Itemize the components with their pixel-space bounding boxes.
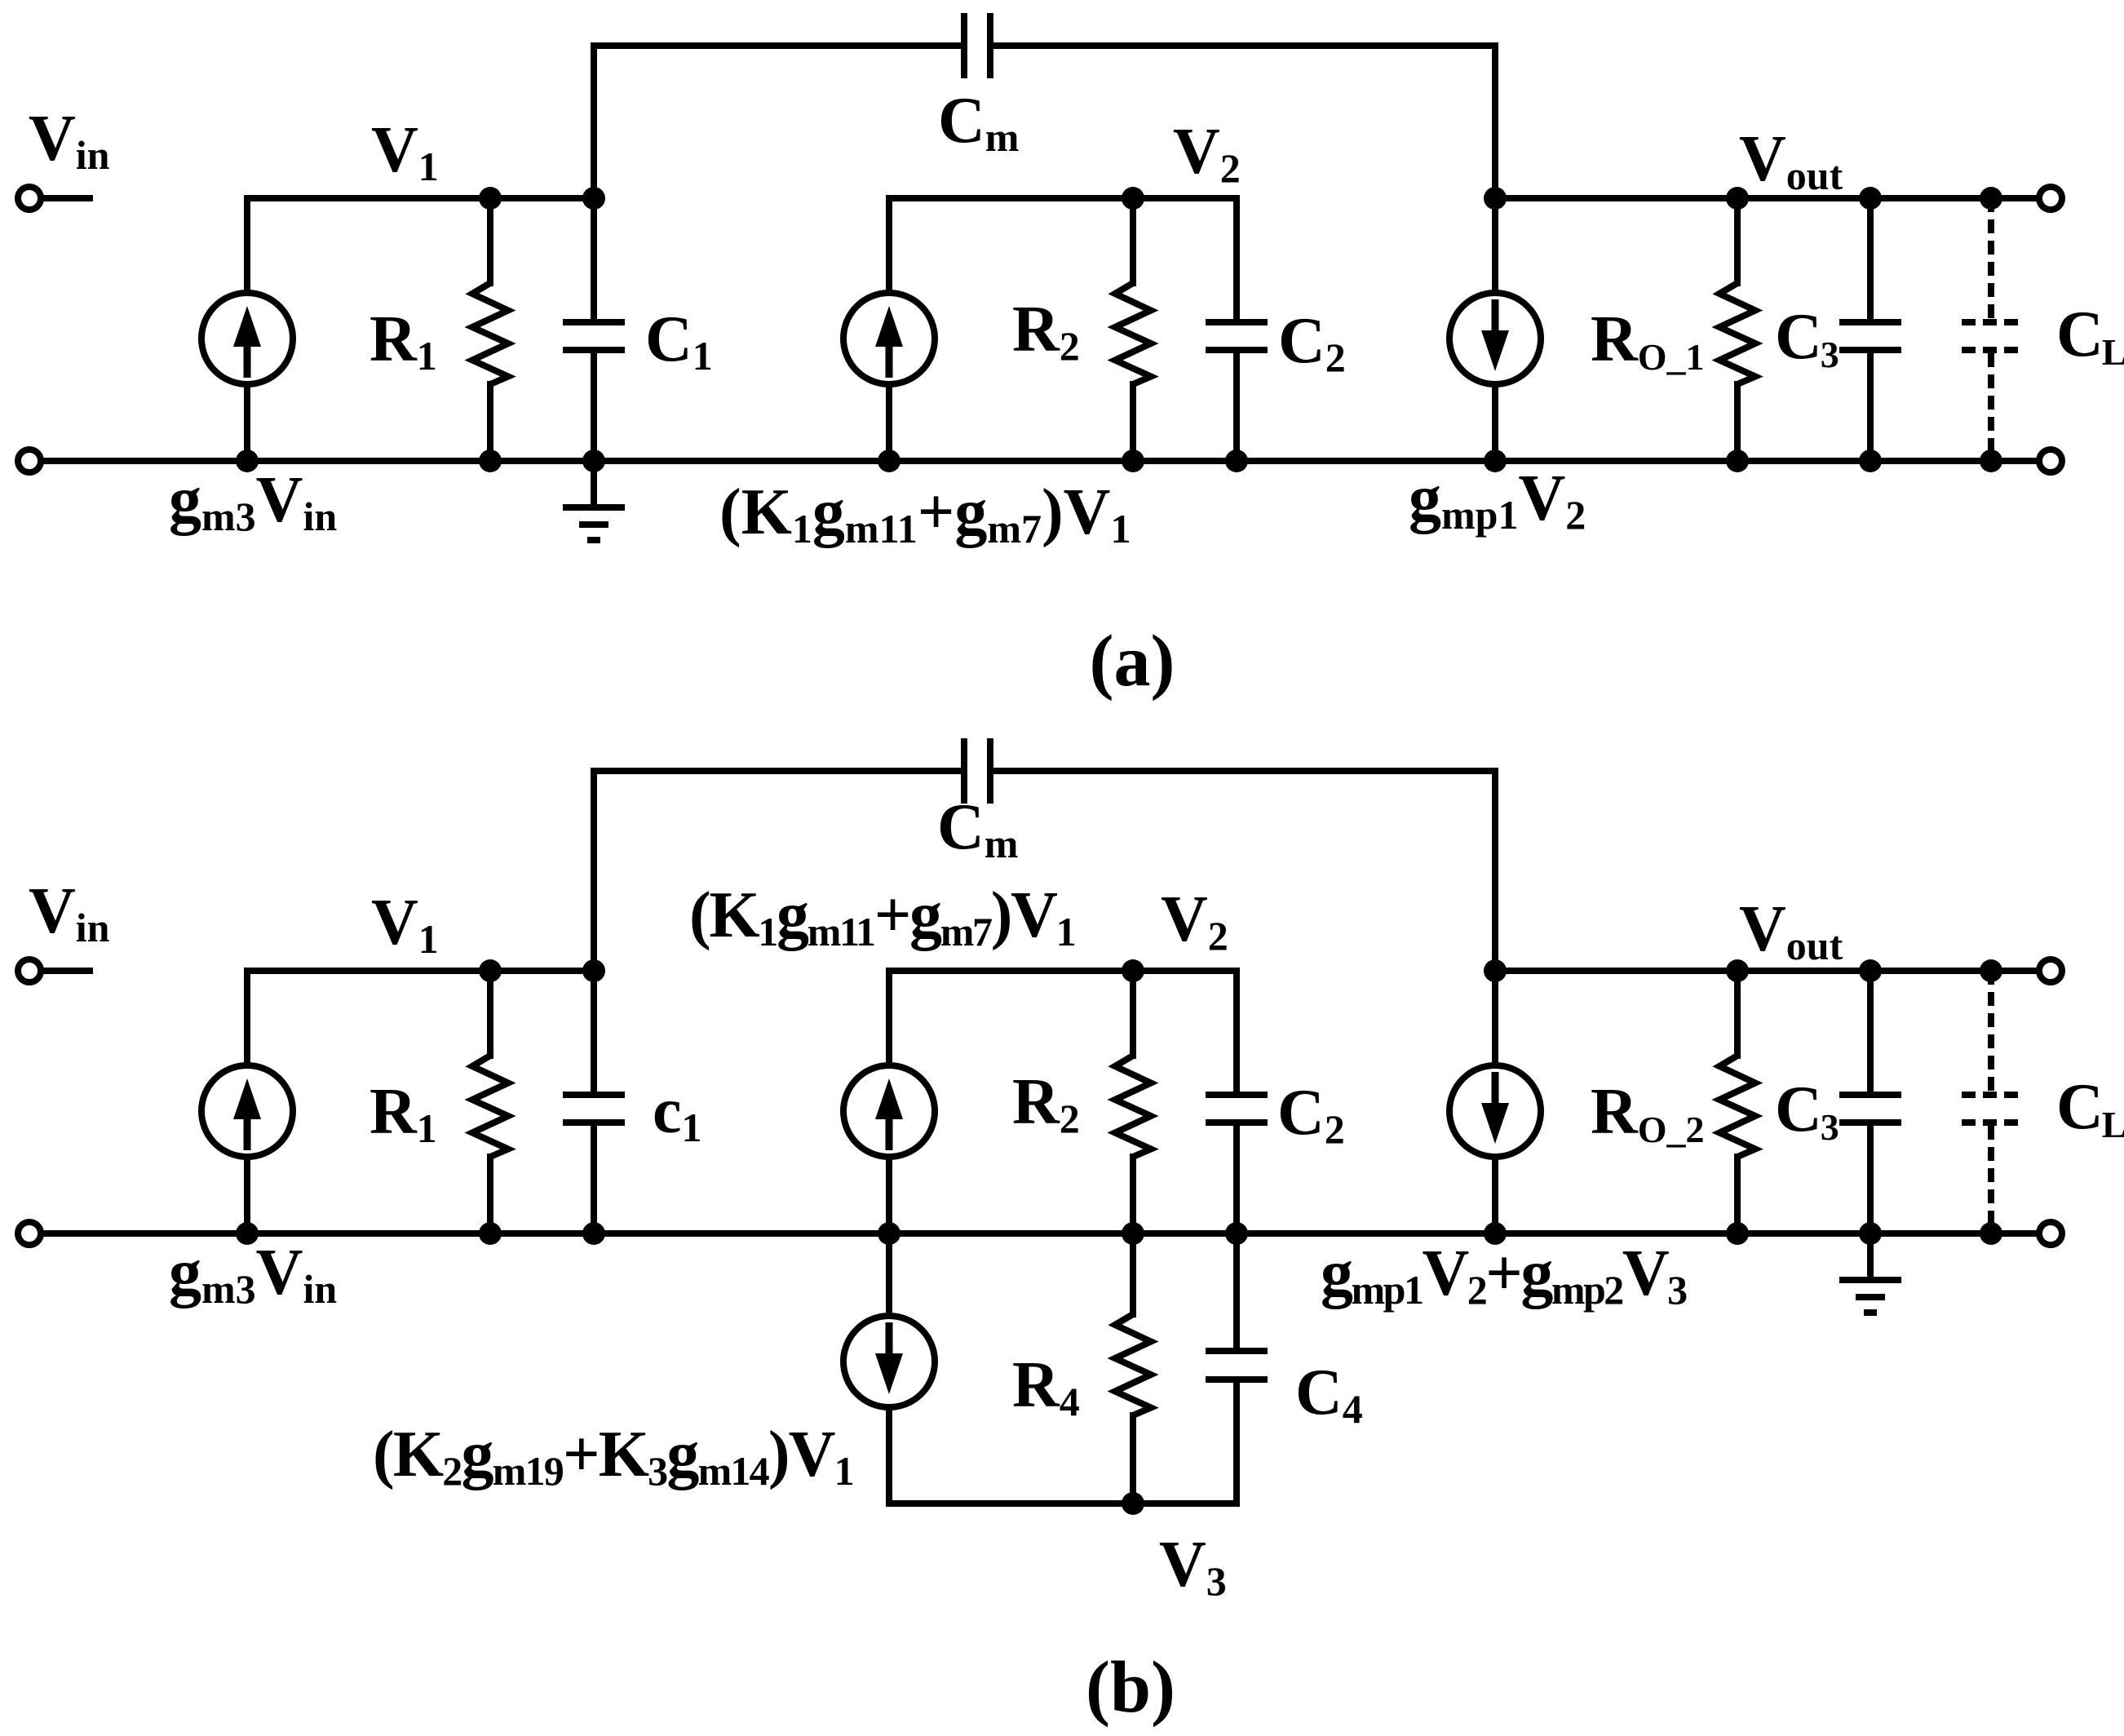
svg-text:RO_1​: RO_1​	[1591, 303, 1705, 378]
svg-text:V2​: V2​	[1161, 883, 1228, 959]
svg-text:C3​: C3​	[1775, 301, 1839, 375]
svg-text:(a): (a)	[1090, 621, 1175, 702]
svg-text:Vin​: Vin​	[29, 875, 110, 950]
svg-text:c1​: c1​	[653, 1075, 702, 1150]
svg-text:(K1​gm11​+gm7​)V1​: (K1​gm11​+gm7​)V1​	[689, 879, 1075, 954]
svg-text:C4​: C4​	[1295, 1357, 1363, 1432]
svg-text:RO_2​: RO_2​	[1591, 1076, 1705, 1150]
svg-text:R2​: R2​	[1012, 294, 1080, 369]
svg-text:CL​: CL​	[2056, 1071, 2124, 1145]
svg-text:R2​: R2​	[1012, 1066, 1080, 1141]
svg-text:V2​: V2​	[1173, 116, 1241, 191]
svg-text:(K1​gm11​+gm7​)V1​: (K1​gm11​+gm7​)V1​	[719, 476, 1131, 551]
svg-text:R1​: R1​	[369, 1076, 437, 1151]
svg-text:Vin​: Vin​	[29, 103, 110, 178]
svg-text:C1​: C1​	[645, 303, 713, 379]
svg-text:V1​: V1​	[371, 887, 439, 962]
svg-text:C2​: C2​	[1278, 305, 1346, 380]
svg-text:gmp1​V2​: gmp1​V2​	[1409, 463, 1586, 538]
svg-text:gmp1​V2​+gmp2​V3​: gmp1​V2​+gmp2​V3​	[1321, 1238, 1687, 1313]
svg-text:gm3​Vin​: gm3​Vin​	[169, 464, 337, 539]
svg-text:R1​: R1​	[369, 303, 437, 379]
svg-text:C2​: C2​	[1277, 1077, 1345, 1152]
svg-text:R4​: R4​	[1012, 1349, 1080, 1424]
svg-text:gm3​Vin​: gm3​Vin​	[169, 1237, 337, 1312]
svg-text:CL​: CL​	[2056, 299, 2124, 373]
svg-text:Cm​: Cm​	[938, 85, 1019, 160]
svg-text:(b): (b)	[1086, 1647, 1175, 1728]
svg-text:V3​: V3​	[1159, 1529, 1227, 1604]
svg-text:V1​: V1​	[371, 114, 439, 189]
svg-text:Vout​: Vout​	[1739, 123, 1843, 198]
svg-text:Vout​: Vout​	[1739, 893, 1843, 968]
svg-text:C3​: C3​	[1775, 1074, 1839, 1148]
svg-text:Cm​: Cm​	[937, 791, 1018, 866]
svg-text:(K2​gm19​+K3​gm14​)V1​: (K2​gm19​+K3​gm14​)V1​	[373, 1419, 853, 1494]
